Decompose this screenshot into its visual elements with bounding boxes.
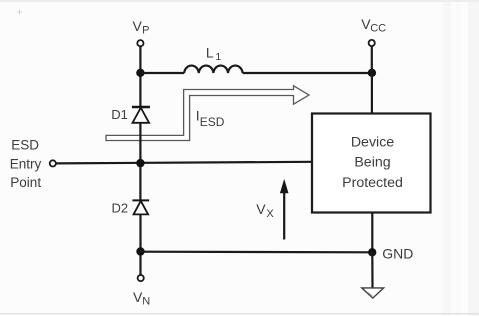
- wire VP down to D1 cathode: [139, 47, 141, 107]
- diode D1: [132, 107, 150, 123]
- node VP rail junction: [136, 69, 144, 77]
- node ESD entry junction: [136, 159, 144, 167]
- svg-text:Entry: Entry: [10, 156, 42, 171]
- node VCC rail junction: [368, 69, 376, 77]
- wire D2 anode down to VN node: [139, 214, 141, 275]
- node bottom rail left junction: [136, 247, 144, 255]
- ESD current arrow IESD: [106, 86, 309, 141]
- wire bottom rail: [141, 251, 373, 254]
- wire top rail right: [243, 72, 372, 74]
- terminal VN: [138, 275, 144, 281]
- svg-text:Point: Point: [10, 175, 41, 190]
- wire device box to ground rail: [371, 213, 373, 253]
- device being protected box U1: [312, 114, 431, 213]
- svg-text:Protected: Protected: [342, 175, 403, 191]
- terminal VCC: [369, 40, 375, 46]
- terminal VP: [137, 40, 143, 46]
- wire VCC terminal to rail: [371, 46, 373, 73]
- wire D1 anode down through entry node to D2 cathode: [139, 123, 141, 201]
- wire ESD entry to device box: [56, 162, 312, 164]
- svg-text:CC: CC: [370, 23, 386, 35]
- svg-text:X: X: [266, 208, 274, 220]
- terminal ESD entry point: [50, 160, 56, 166]
- svg-text:1: 1: [215, 51, 221, 63]
- svg-text:Being: Being: [354, 155, 390, 171]
- svg-text:GND: GND: [382, 245, 413, 261]
- svg-text:L: L: [206, 45, 214, 61]
- wire VCC rail to device box: [371, 73, 373, 114]
- svg-text:ESD: ESD: [200, 115, 225, 129]
- svg-text:Device: Device: [351, 135, 394, 151]
- wire top rail left: [140, 72, 184, 74]
- voltage arrow VX: [280, 179, 289, 240]
- inductor L1: [184, 66, 242, 73]
- svg-text:ESD: ESD: [11, 138, 39, 153]
- wire GND junction to ground symbol: [371, 252, 373, 287]
- svg-text:V: V: [133, 18, 143, 34]
- svg-text:D2: D2: [112, 200, 129, 215]
- svg-text:D1: D1: [111, 107, 128, 122]
- ground: [362, 288, 384, 298]
- svg-text:P: P: [142, 25, 149, 37]
- node GND junction: [368, 248, 376, 256]
- diode D2: [132, 200, 149, 214]
- svg-text:V: V: [256, 201, 266, 217]
- svg-text:N: N: [142, 296, 150, 308]
